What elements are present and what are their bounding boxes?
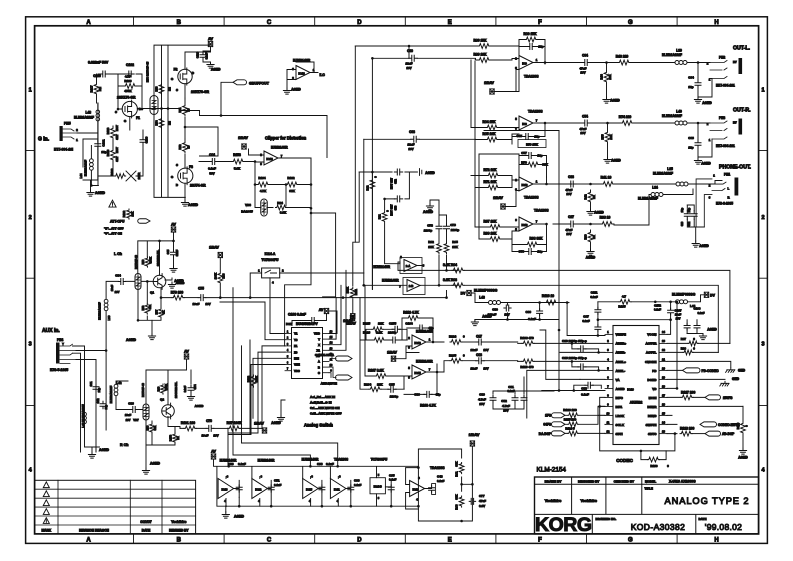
svg-text:R115 100: R115 100: [564, 417, 577, 421]
wire IC17 input bus: [220, 302, 285, 435]
svg-text:1: 1: [29, 88, 32, 94]
svg-text:BLM21A102F: BLM21A102F: [84, 159, 88, 176]
svg-text:B: B: [177, 538, 182, 544]
svg-text:100K: 100K: [255, 376, 259, 382]
capacitor C32 23p vertical: [691, 211, 697, 219]
svg-text:2SJ74-GR: 2SJ74-GR: [190, 184, 206, 188]
svg-text:AGND: AGND: [99, 448, 110, 452]
svg-text:G/AUX-CPU1: G/AUX-CPU1: [315, 353, 334, 357]
svg-text:SDTO: SDTO: [648, 432, 657, 436]
wire IC10A output: [533, 177, 572, 184]
grid row ticks left: [26, 150, 35, 152]
svg-text:16V: 16V: [580, 71, 585, 75]
wire IC17 right connections: [329, 270, 346, 350]
svg-text:SCLK: SCLK: [616, 423, 625, 427]
svg-text:TC7S66FU: TC7S66FU: [262, 258, 280, 262]
svg-text:2SK170-GR: 2SK170-GR: [191, 90, 210, 94]
wire clipper feedback resistors: [255, 158, 311, 206]
svg-text:BU4053BCFV: BU4053BCFV: [296, 322, 318, 326]
svg-text:L48: L48: [86, 111, 92, 115]
svg-text:22uF: 22uF: [470, 367, 477, 371]
svg-text:TDA1308: TDA1308: [534, 209, 549, 213]
svg-text:R51: R51: [178, 107, 182, 112]
svg-text:NJM2140R: NJM2140R: [373, 265, 390, 269]
svg-text:R Ch: R Ch: [120, 443, 128, 447]
svg-text:D: D: [357, 20, 362, 26]
dual diode pill VD5: [150, 96, 158, 115]
svg-text:C48: C48: [437, 475, 443, 479]
supply AV bottom row: [211, 454, 215, 459]
svg-text:E: E: [448, 538, 452, 544]
svg-text:C67: C67: [516, 134, 522, 138]
svg-text:2: 2: [29, 215, 32, 221]
wire PD row: [667, 369, 683, 371]
svg-text:R125: R125: [363, 322, 371, 326]
ground AGND codec caps: [699, 334, 706, 340]
svg-text:LRCK: LRCK: [616, 414, 625, 418]
ground AGND R129: [739, 448, 746, 454]
svg-text:12K: 12K: [452, 245, 458, 249]
svg-text:2200p: 2200p: [390, 395, 399, 399]
tag 256FS: [705, 395, 721, 400]
svg-text:R124: R124: [449, 335, 457, 339]
ground AGND C85: [170, 266, 177, 272]
capacitor C74 0.1uF: [188, 385, 194, 392]
svg-text:IC14-B: IC14-B: [374, 485, 382, 489]
svg-text:10: 10: [187, 145, 191, 148]
op-amp buffer IC13b: [218, 479, 234, 499]
wire half supply loop: [418, 446, 472, 521]
svg-text:TDA1308: TDA1308: [430, 466, 445, 470]
wire VREFH feed: [557, 302, 671, 336]
svg-text:NJM2140R: NJM2140R: [416, 359, 433, 363]
svg-text:IC14-A: IC14-A: [265, 252, 276, 256]
svg-text:BLM21A102F: BLM21A102F: [638, 197, 658, 201]
svg-text:OUT-R.: OUT-R.: [733, 108, 751, 114]
svg-text:R75: R75: [601, 134, 605, 140]
C155b cap symbol: [392, 326, 400, 332]
svg-text:IC16: IC16: [627, 388, 634, 392]
svg-text:C104: C104: [405, 322, 413, 326]
svg-text:R113 4.7K: R113 4.7K: [403, 311, 419, 315]
svg-text:R77: R77: [155, 309, 159, 314]
svg-text:PD: PD: [652, 369, 657, 373]
svg-text:AGND: AGND: [702, 101, 712, 105]
svg-text:AD-DSP: AD-DSP: [722, 432, 735, 436]
wire R-Ch rails: [146, 359, 191, 405]
svg-text:1: 1: [761, 88, 764, 94]
svg-text:0.1uF: 0.1uF: [654, 308, 661, 312]
jack PH5 pins: [63, 129, 77, 139]
revision table grid: [35, 480, 196, 534]
svg-text:AcL,BrL...AUX IN: AcL,BrL...AUX IN: [310, 395, 336, 399]
svg-text:R71 18K: R71 18K: [483, 180, 497, 184]
svg-text:4.7K: 4.7K: [260, 189, 267, 193]
svg-text:0.1uF: 0.1uF: [590, 295, 598, 299]
svg-text:C81: C81: [89, 381, 93, 386]
svg-text:IC15: IC15: [306, 488, 312, 492]
svg-text:C54: C54: [582, 115, 588, 119]
svg-text:1FS: 1FS: [545, 414, 551, 418]
svg-text:HTJ-064-101: HTJ-064-101: [716, 144, 735, 148]
ground GND hatch DGND: [720, 381, 729, 386]
svg-text:G: G: [628, 20, 633, 26]
svg-text:AGND: AGND: [586, 256, 596, 260]
svg-text:16V: 16V: [408, 147, 413, 151]
svg-text:TDA1308: TDA1308: [334, 458, 348, 462]
svg-text:L44: L44: [79, 173, 83, 178]
resistor R111 182K vertical: [350, 287, 355, 298]
op-amp IC10-A TDA1308: [519, 177, 533, 191]
supply AV L-Ch: [171, 227, 175, 232]
svg-text:R96: R96: [681, 347, 687, 351]
svg-text:F2: F2: [174, 68, 178, 72]
svg-text:22uF: 22uF: [470, 348, 477, 352]
svg-text:OUT-L.: OUT-L.: [733, 46, 751, 52]
wire IC-B output bus R93: [364, 284, 458, 286]
revision mark triangle row2: [43, 491, 49, 497]
svg-text:C80: C80: [492, 308, 498, 312]
svg-text:4.7P: 4.7P: [125, 75, 131, 79]
ground AGND C74: [187, 394, 194, 400]
wire codec analog bus vertical: [540, 320, 580, 391]
wire gate join to F1: [137, 108, 180, 110]
capacitor C85 0.1uF AV bypass: [171, 250, 177, 257]
ground AGND F3: [181, 200, 188, 206]
wire F1 connections: [118, 109, 142, 130]
revision mark warning triangle row5: [43, 518, 49, 524]
svg-text:3: 3: [29, 342, 32, 348]
svg-text:C72: C72: [393, 179, 397, 184]
svg-text:DV: DV: [461, 292, 466, 296]
svg-text:ABNR+: ABNR+: [616, 342, 627, 346]
resistor R44 10K vertical: [604, 71, 609, 83]
svg-text:EJS-3-1635: EJS-3-1635: [716, 202, 733, 206]
svg-text:10uF: 10uF: [192, 302, 199, 306]
svg-text:2-B: 2-B: [409, 284, 414, 288]
svg-text:R104: R104: [364, 383, 372, 387]
svg-text:X: X: [318, 343, 320, 347]
svg-text:25V: 25V: [479, 402, 484, 406]
svg-text:AcH,BrH...G IN: AcH,BrH...G IN: [310, 401, 332, 405]
svg-text:1K: 1K: [162, 310, 166, 313]
svg-text:ILC: ILC: [320, 73, 326, 77]
svg-text:C85: C85: [166, 249, 170, 254]
svg-text:IC13: IC13: [298, 72, 305, 76]
svg-text:0.1uF: 0.1uF: [581, 392, 589, 396]
svg-text:C64: C64: [582, 54, 588, 58]
svg-text:KOD-A30382: KOD-A30382: [631, 522, 686, 532]
svg-text:IC11: IC11: [334, 488, 340, 492]
ground AGND C72: [409, 169, 421, 176]
svg-text:3: 3: [761, 342, 764, 348]
svg-text:Z0: Z0: [294, 350, 298, 354]
svg-text:R114 5: R114 5: [565, 427, 575, 431]
svg-text:C78: C78: [427, 224, 433, 228]
capacitor C81 22p vertical: [93, 384, 99, 392]
svg-text:VD7: VD7: [133, 418, 139, 422]
svg-text:C82: C82: [501, 399, 507, 403]
svg-text:R89 10K: R89 10K: [473, 53, 487, 57]
FET F2 2SK170-GR: [178, 69, 192, 83]
svg-text:"0"...ATT ON: "0"...ATT ON: [104, 232, 122, 236]
svg-text:R68 33K: R68 33K: [529, 237, 543, 241]
resistor R52: [183, 142, 188, 153]
wire IC-A output bus R94: [398, 262, 458, 270]
svg-text:ATT-CPU: ATT-CPU: [110, 220, 125, 224]
svg-text:1/2AV: 1/2AV: [343, 319, 353, 323]
bus AUX-R to IC17: [227, 428, 229, 466]
ground AGND C110: [207, 62, 214, 68]
bus GBUFF vertical x355: [355, 46, 364, 285]
op-amp buffer IC11: [330, 479, 346, 499]
wire codec left side signals: [524, 336, 605, 419]
svg-text:VREFH: VREFH: [616, 333, 627, 337]
svg-text:R109 470: R109 470: [520, 336, 534, 340]
svg-text:PH4: PH4: [57, 338, 63, 342]
svg-text:R105: R105: [449, 354, 457, 358]
svg-text:C87: C87: [476, 335, 482, 339]
svg-text:IC10: IC10: [521, 223, 527, 227]
supply DV tag: [467, 290, 471, 295]
revision table outline: [35, 480, 196, 534]
svg-text:F3: F3: [189, 165, 193, 169]
svg-text:10: 10: [187, 108, 191, 111]
svg-text:ABNL+: ABNL+: [616, 360, 627, 364]
svg-text:DGND: DGND: [647, 378, 657, 382]
svg-text:TDA1308: TDA1308: [524, 196, 539, 200]
svg-text:VD: VD: [652, 387, 657, 391]
svg-text:C63: C63: [688, 136, 694, 140]
tag AD-DSP: [705, 431, 721, 436]
svg-text:C97: C97: [583, 314, 589, 318]
svg-text:R67 18K: R67 18K: [483, 220, 497, 224]
svg-text:Y0: Y0: [294, 338, 298, 342]
tag GBUFFOUT: [233, 80, 247, 85]
svg-text:256FS: 256FS: [723, 396, 732, 400]
grid column ticks top: [133, 17, 135, 26]
svg-text:NJM2140R: NJM2140R: [271, 146, 288, 150]
svg-text:C68: C68: [409, 130, 415, 134]
svg-text:R70: R70: [521, 161, 527, 165]
svg-text:4.7uF: 4.7uF: [502, 404, 510, 408]
wire phone right rails: [649, 195, 687, 206]
svg-text:0.1uF: 0.1uF: [582, 319, 590, 323]
svg-text:AGND: AGND: [707, 328, 717, 332]
svg-text:R83: R83: [222, 273, 226, 278]
svg-text:C27: C27: [568, 215, 574, 219]
svg-text:R78: R78: [141, 259, 145, 264]
svg-text:C74: C74: [193, 384, 197, 389]
dual diode VD6: [135, 274, 141, 290]
svg-text:R80 15K: R80 15K: [523, 32, 537, 36]
revision mark triangle row1: [43, 482, 49, 488]
IC17 chip body: [292, 328, 323, 379]
svg-text:1/2AV: 1/2AV: [254, 422, 264, 426]
wire C102 R109 loop: [118, 74, 142, 110]
svg-text:23p: 23p: [680, 207, 684, 212]
svg-text:5.6K: 5.6K: [234, 167, 241, 171]
svg-text:C99: C99: [525, 310, 531, 314]
svg-text:L25: L25: [667, 167, 673, 171]
wire DIFO DIF1 loopback: [600, 397, 675, 451]
svg-text:8.2K R94: 8.2K R94: [443, 263, 457, 267]
svg-text:R43 220: R43 220: [616, 55, 629, 59]
svg-text:4.7uF: 4.7uF: [478, 398, 486, 402]
svg-text:SDTI: SDTI: [616, 432, 623, 436]
wire bus C68: [364, 131, 559, 140]
svg-text:16V: 16V: [406, 66, 411, 70]
svg-text:0.022uF 50V: 0.022uF 50V: [88, 61, 109, 65]
wire DEMR DEM0: [667, 406, 743, 415]
svg-text:C57: C57: [521, 151, 527, 155]
svg-text:BLM21P600SG: BLM21P600SG: [474, 289, 498, 293]
svg-text:Z1: Z1: [294, 344, 298, 348]
wire IC9B output: [512, 123, 578, 144]
svg-text:R69 10K: R69 10K: [483, 232, 497, 236]
svg-text:H: H: [714, 20, 718, 26]
svg-text:10K: 10K: [608, 73, 612, 79]
svg-text:PD-CODEC: PD-CODEC: [702, 369, 720, 373]
svg-text:DATE: DATE: [699, 517, 707, 521]
svg-text:R74 220: R74 220: [619, 115, 632, 119]
jack PH4 pins: [60, 344, 76, 363]
svg-text:R72 18K: R72 18K: [483, 168, 497, 172]
svg-text:22p: 22p: [104, 404, 108, 409]
capacitor C96b bypass: [319, 485, 325, 492]
ground AGND R75: [604, 157, 611, 163]
svg-text:0.1uF: 0.1uF: [437, 479, 445, 483]
svg-text:R53: R53: [155, 86, 159, 91]
ground AGND AUX: [88, 452, 95, 458]
svg-text:MODEL: MODEL: [645, 479, 656, 483]
title block header dividers: [535, 477, 759, 534]
svg-text:R84 15K: R84 15K: [482, 120, 496, 124]
wire GBUFFOUT to rect loop: [180, 82, 328, 157]
capacitor C110: [200, 52, 206, 59]
svg-text:SET: SET: [115, 134, 119, 140]
svg-text:MCKI: MCKI: [649, 396, 657, 400]
svg-text:VCOM: VCOM: [647, 333, 657, 337]
svg-text:REVISION REASON: REVISION REASON: [79, 529, 109, 533]
svg-text:1/2AV: 1/2AV: [493, 196, 503, 200]
svg-text:R38 10: R38 10: [600, 216, 611, 220]
svg-text:16V: 16V: [483, 348, 488, 352]
svg-text:AGND: AGND: [611, 159, 621, 163]
svg-text:R73: R73: [141, 305, 145, 310]
svg-text:33K: 33K: [153, 425, 157, 430]
svg-text:NJM2140R: NJM2140R: [258, 459, 275, 463]
svg-text:10uF: 10uF: [110, 285, 114, 292]
svg-text:ABNR-: ABNR-: [616, 351, 626, 355]
svg-text:C83: C83: [128, 402, 134, 406]
svg-text:IC10: IC10: [521, 183, 527, 187]
svg-text:2200p: 2200p: [451, 228, 460, 232]
svg-text:AGND: AGND: [423, 210, 434, 214]
svg-text:16V: 16V: [483, 367, 488, 371]
capacitor C56 10p: [526, 249, 534, 255]
svg-text:AGND: AGND: [95, 191, 106, 195]
svg-text:F: F: [538, 538, 542, 544]
svg-text:R90: R90: [455, 504, 459, 510]
svg-text:AGND: AGND: [271, 421, 281, 425]
svg-text:BLM21P600SG: BLM21P600SG: [672, 292, 696, 296]
svg-text:1/2AV: 1/2AV: [387, 351, 397, 355]
ground AGND L-Ch bottom: [148, 334, 155, 340]
svg-text:R153: R153: [233, 153, 241, 157]
svg-text:GND: GND: [738, 369, 746, 373]
svg-text:R52: R52: [178, 144, 182, 149]
svg-text:12K: 12K: [378, 322, 384, 326]
ground AGND input stage: [87, 190, 94, 196]
svg-text:C84: C84: [209, 153, 215, 157]
svg-text:1/2AV: 1/2AV: [484, 81, 494, 85]
svg-text:R95: R95: [452, 240, 458, 244]
svg-text:NJM2140R: NJM2140R: [416, 329, 433, 333]
capacitor C70 22p: [527, 44, 535, 50]
wire C88b to R110: [484, 360, 518, 363]
svg-text:BLM21A102F: BLM21A102F: [98, 302, 102, 320]
ground AGND R42: [587, 209, 594, 215]
svg-text:AGND: AGND: [738, 456, 748, 460]
ground AGND R-Ch bottom: [142, 468, 149, 474]
capacitor C28 23p vertical: [684, 211, 690, 219]
resistor R75 10K vertical: [605, 131, 610, 143]
svg-text:100K: 100K: [149, 257, 153, 263]
svg-text:KORG: KORG: [535, 514, 592, 536]
wire codec AOUTL loop: [667, 352, 731, 367]
svg-text:IC17: IC17: [286, 322, 293, 326]
svg-text:22p: 22p: [97, 387, 101, 392]
svg-text:B: B: [318, 365, 320, 369]
svg-text:EJS-5-1035: EJS-5-1035: [50, 368, 68, 372]
svg-text:F: F: [538, 20, 542, 26]
wire clipper input output: [249, 149, 312, 213]
resistor R130 0: [647, 457, 659, 462]
supply AV top: [208, 41, 212, 46]
wire IC18 output: [406, 337, 444, 353]
svg-text:NOT SET: NOT SET: [390, 177, 394, 189]
svg-text:E: E: [448, 20, 452, 26]
svg-text:6.3V: 6.3V: [479, 504, 485, 508]
svg-text:R117: R117: [90, 85, 94, 92]
svg-text:100K: 100K: [214, 273, 218, 279]
svg-text:R85 10K: R85 10K: [482, 132, 496, 136]
wire IC9A output: [533, 62, 578, 64]
svg-text:MARK: MARK: [42, 529, 52, 533]
svg-text:Clipper for Distortion: Clipper for Distortion: [265, 136, 307, 141]
svg-text:'99.08.02: '99.08.02: [705, 522, 742, 532]
capacitor C82 22p vertical: [100, 401, 106, 409]
svg-text:DRAWING NO.: DRAWING NO.: [596, 517, 617, 521]
svg-text:VSS: VSS: [294, 369, 300, 373]
svg-text:L40: L40: [676, 110, 682, 114]
svg-text:S: S: [176, 88, 178, 92]
resistor R110c 470 ABNL: [522, 359, 534, 364]
svg-text:VEE: VEE: [294, 363, 300, 367]
bus 1/2AV common: [264, 432, 266, 434]
svg-text:R110 470: R110 470: [520, 365, 534, 369]
svg-text:10uF: 10uF: [125, 413, 132, 417]
svg-text:C109: C109: [145, 136, 149, 143]
wire Q1 emitter resistors: [138, 281, 172, 320]
svg-text:R97: R97: [681, 337, 687, 341]
wire bus C69 left: [355, 46, 475, 60]
svg-text:12K: 12K: [428, 245, 434, 249]
svg-text:0.1uF: 0.1uF: [528, 317, 536, 321]
svg-text:HTJ-064-10l: HTJ-064-10l: [54, 148, 73, 152]
wire C87 to R109: [484, 341, 518, 343]
